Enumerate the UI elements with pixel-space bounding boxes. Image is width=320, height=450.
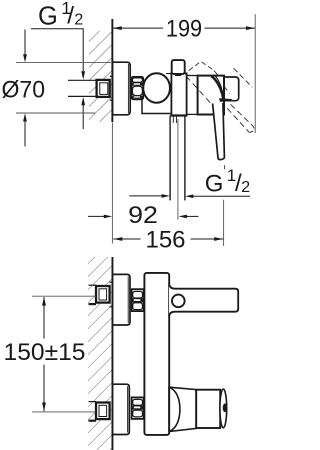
- lever axis tick: [224, 165, 226, 169]
- right extension for 156: [223, 200, 225, 246]
- shower outlet nipple (top view): [170, 116, 185, 201]
- mixer body column (top view): [171, 73, 186, 115]
- wall surface line (bottom view): [112, 257, 114, 450]
- escutcheon flange (top view): [113, 62, 131, 115]
- lower escutcheon (bottom view): [113, 384, 130, 434]
- svg-text:92: 92: [128, 202, 158, 229]
- upper hex nut (bottom view): [132, 289, 144, 311]
- body housing behind sphere: [142, 90, 171, 114]
- svg-text:2: 2: [241, 179, 250, 196]
- svg-text:199: 199: [166, 15, 202, 42]
- spout arm with hole: [169, 284, 238, 317]
- hanger hole in arm: [172, 295, 185, 308]
- lever grip cylinder (bottom view): [196, 390, 220, 428]
- wall surface line (top view), also 199 left extension: [111, 19, 113, 122]
- union fitting in wall (top view): [97, 80, 110, 97]
- hex nut on S-union (top view): [132, 77, 144, 100]
- dim 156: [113, 238, 140, 240]
- dim 92: [88, 215, 105, 217]
- wall (hatched section, top view): [89, 31, 112, 122]
- wall (hatched section, bottom view): [88, 257, 112, 450]
- top cap on body: [172, 60, 185, 74]
- svg-text:150±15: 150±15: [4, 339, 86, 366]
- wall extension line (left ext for 92/156): [111, 123, 113, 244]
- cartridge section connector lines: [186, 75, 198, 77]
- mixer body column (bottom view): [144, 273, 169, 435]
- dim 199: [113, 27, 256, 29]
- upper supply fitting (bottom view): [89, 284, 97, 286]
- cartridge boss: [198, 76, 224, 115]
- dim 150±15: [32, 295, 96, 297]
- nipple axis line / 92 extension: [177, 119, 179, 220]
- svg-text:G: G: [38, 3, 58, 31]
- dim Ø70: [16, 62, 111, 64]
- svg-text:/: /: [67, 2, 74, 29]
- grip end face: [220, 389, 227, 428]
- label G 1/2 (bottom right) with thread arrows: [129, 195, 162, 197]
- shelf line circle-to-body: [166, 73, 171, 75]
- upper escutcheon (bottom view): [113, 274, 130, 325]
- lever cone skirt (bottom view): [169, 387, 196, 431]
- svg-text:G: G: [205, 170, 224, 197]
- body edge behind cone: [168, 386, 170, 433]
- svg-text:Ø70: Ø70: [2, 76, 46, 103]
- indicator nub on grip end: [223, 403, 227, 412]
- dashed alternate lever position: [186, 61, 254, 132]
- svg-text:156: 156: [145, 226, 185, 253]
- supply pipe in wall (top view): [68, 80, 97, 96]
- lever neck over boss: [211, 76, 223, 101]
- ball joint sphere: [143, 73, 170, 102]
- lower hex nut (bottom view): [132, 397, 144, 419]
- lever arm (down position): [213, 103, 225, 160]
- svg-text:2: 2: [74, 12, 83, 29]
- lever end cap (rounded, pointing right): [216, 77, 239, 101]
- lower supply fitting (bottom view): [89, 401, 97, 403]
